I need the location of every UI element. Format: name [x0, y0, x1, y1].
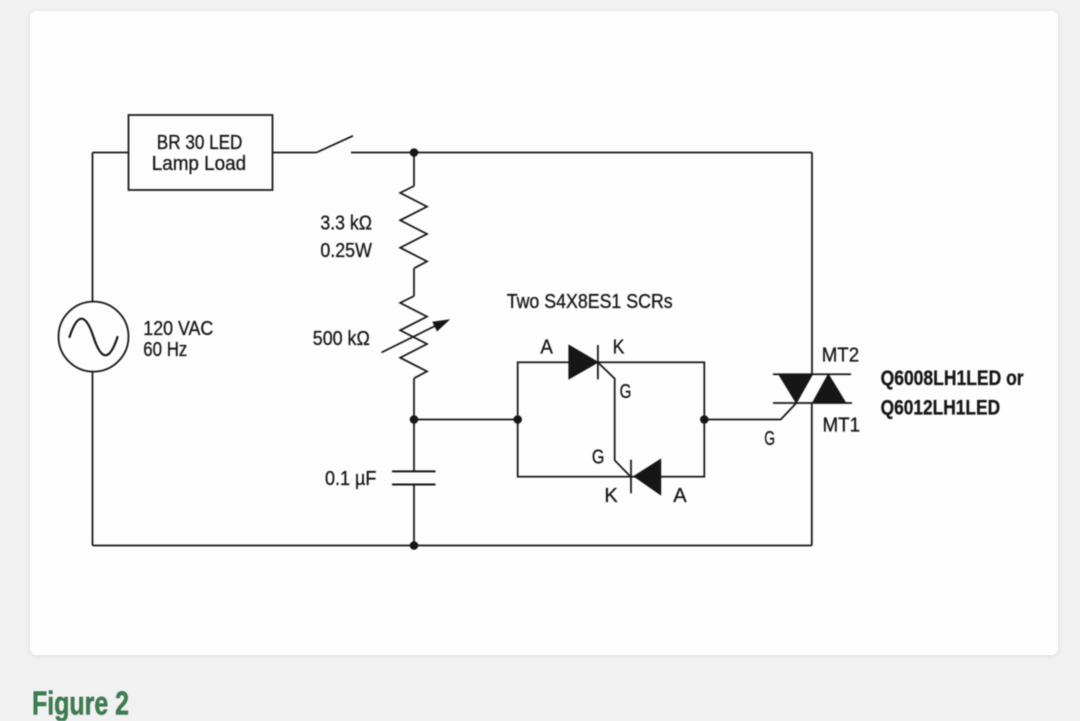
wire R1 to R2	[413, 268, 415, 296]
SCR D1 cathode bar	[597, 345, 599, 379]
svg-text:60 Hz: 60 Hz	[143, 339, 187, 361]
wire bottom rail	[93, 545, 812, 547]
capacitor C1 top plate	[392, 470, 436, 472]
triac Q1 bottom bar	[773, 402, 852, 404]
SCR D2 triangle	[634, 459, 661, 495]
svg-text:500 kΩ: 500 kΩ	[313, 328, 370, 350]
node junction dot bottom	[410, 541, 419, 550]
triac Q1 right triangle	[813, 374, 846, 403]
wire right rail lower (MT1 lead)	[811, 403, 813, 546]
SCR box	[518, 362, 705, 476]
svg-text:MT1: MT1	[823, 414, 861, 436]
wire R2 to node	[413, 378, 415, 419]
potentiometer R2 500k zigzag	[400, 296, 427, 378]
resistor R1 3.3k lead	[413, 153, 415, 187]
wire left rail lower	[92, 372, 94, 546]
potentiometer R2 wiper arrow shaft	[382, 324, 441, 353]
svg-text:120 VAC: 120 VAC	[143, 318, 213, 340]
AC source sine wave	[70, 319, 118, 356]
wire node to SCR box left	[414, 419, 518, 421]
node junction dot at divider	[410, 415, 419, 424]
AC source V1 circle	[59, 302, 129, 372]
svg-text:Lamp Load: Lamp Load	[152, 153, 247, 175]
svg-text:0.1 µF: 0.1 µF	[325, 468, 376, 490]
SCR D2 cathode bar	[630, 460, 632, 494]
svg-text:K: K	[613, 337, 625, 359]
svg-text:G: G	[764, 428, 775, 450]
SCR D1 triangle	[569, 345, 598, 379]
triac Q1 top bar	[773, 373, 851, 375]
resistor R1 3.3k zigzag	[400, 186, 427, 268]
SCR D1 gate lead	[599, 363, 630, 476]
wire left rail upper	[92, 153, 94, 302]
svg-text:Q6012LH1LED: Q6012LH1LED	[881, 396, 1001, 419]
wire lamp box to switch	[273, 152, 317, 154]
wire right rail upper (MT2 lead)	[811, 153, 813, 375]
capacitor C1 bottom lead	[413, 485, 415, 546]
wire switch to top-right corner	[351, 152, 812, 154]
wire from source rail to lamp load box	[93, 152, 129, 154]
node junction dot SCR box left	[513, 415, 522, 424]
svg-text:BR 30 LED: BR 30 LED	[157, 132, 243, 154]
svg-text:K: K	[604, 485, 618, 507]
svg-text:A: A	[673, 485, 687, 507]
wire SCR box right to triac gate	[704, 403, 796, 420]
node junction dot SCR box right	[700, 415, 709, 424]
svg-text:Figure 2: Figure 2	[32, 685, 129, 721]
svg-text:G: G	[620, 381, 632, 403]
svg-text:Two S4X8ES1 SCRs: Two S4X8ES1 SCRs	[507, 291, 673, 313]
svg-text:MT2: MT2	[822, 345, 860, 367]
capacitor C1 top lead	[413, 420, 415, 472]
svg-text:Q6008LH1LED or: Q6008LH1LED or	[881, 367, 1024, 390]
svg-text:A: A	[540, 337, 553, 359]
svg-text:G: G	[592, 447, 605, 469]
triac Q1 left triangle	[779, 374, 813, 403]
capacitor C1 bottom plate	[392, 484, 436, 486]
lamp load box	[129, 115, 273, 190]
node junction dot top	[410, 148, 419, 157]
svg-text:0.25W: 0.25W	[320, 240, 372, 262]
switch S1 blade	[317, 136, 354, 153]
potentiometer R2 wiper arrowhead	[433, 320, 449, 331]
svg-text:3.3 kΩ: 3.3 kΩ	[320, 212, 372, 234]
